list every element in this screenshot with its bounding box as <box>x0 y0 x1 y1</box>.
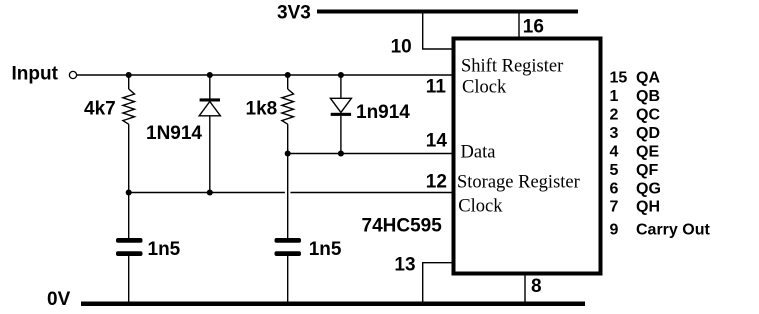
svg-text:13: 13 <box>394 255 415 276</box>
svg-text:0V: 0V <box>47 289 71 310</box>
svg-text:8: 8 <box>531 276 542 297</box>
svg-text:QE: QE <box>636 143 659 160</box>
svg-text:1n5: 1n5 <box>309 239 342 260</box>
svg-text:11: 11 <box>426 77 447 98</box>
svg-text:4: 4 <box>610 143 619 160</box>
svg-text:QF: QF <box>636 162 658 179</box>
svg-text:15: 15 <box>610 70 628 87</box>
svg-text:QB: QB <box>636 88 660 105</box>
svg-text:Input: Input <box>12 64 59 85</box>
svg-text:QA: QA <box>636 70 660 87</box>
svg-text:1n914: 1n914 <box>356 102 410 123</box>
svg-text:Shift Register: Shift Register <box>461 57 563 77</box>
svg-text:9: 9 <box>610 222 619 239</box>
svg-text:1n5: 1n5 <box>148 239 181 260</box>
svg-text:1k8: 1k8 <box>246 99 278 120</box>
svg-text:14: 14 <box>426 131 448 152</box>
svg-text:QH: QH <box>636 199 660 216</box>
svg-text:74HC595: 74HC595 <box>362 215 443 236</box>
svg-text:QG: QG <box>636 180 661 197</box>
svg-text:3V3: 3V3 <box>277 3 311 24</box>
svg-text:3: 3 <box>610 125 619 142</box>
svg-text:16: 16 <box>523 16 544 37</box>
svg-text:5: 5 <box>610 162 619 179</box>
svg-text:4k7: 4k7 <box>84 99 116 120</box>
svg-text:7: 7 <box>610 199 619 216</box>
svg-text:QC: QC <box>636 107 660 124</box>
svg-text:1N914: 1N914 <box>146 123 202 144</box>
svg-text:10: 10 <box>391 36 412 57</box>
svg-text:QD: QD <box>636 125 660 142</box>
svg-text:1: 1 <box>610 88 619 105</box>
svg-text:Storage Register: Storage Register <box>457 172 580 192</box>
svg-text:12: 12 <box>426 171 447 192</box>
svg-text:Data: Data <box>461 142 496 162</box>
svg-text:Clock: Clock <box>462 77 507 97</box>
svg-text:6: 6 <box>610 180 619 197</box>
svg-text:Clock: Clock <box>458 197 503 217</box>
svg-text:2: 2 <box>610 107 619 124</box>
svg-text:Carry Out: Carry Out <box>636 222 710 239</box>
